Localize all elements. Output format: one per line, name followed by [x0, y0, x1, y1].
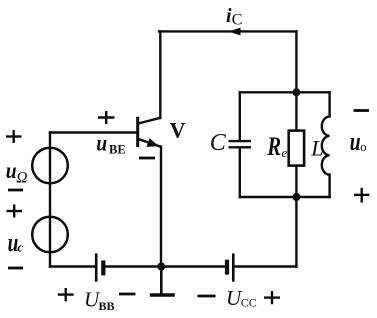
plus sign top-left (u_Omega)	[6, 130, 22, 143]
wire resistor branch upper	[295, 92, 297, 131]
wire resistor branch lower	[295, 165, 297, 197]
svg-text:u: u	[6, 158, 17, 184]
wire left vertical through sources	[49, 133, 51, 267]
svg-text:u: u	[96, 130, 107, 156]
svg-text:R: R	[266, 133, 281, 162]
transistor V: collector diagonal	[138, 118, 161, 124]
wire bottom right segment	[234, 265, 296, 267]
arrow for iC on top wire	[229, 28, 241, 36]
battery U_CC short plate	[225, 260, 229, 275]
junction dot emitter/bottom	[157, 263, 165, 271]
wire capacitor branch upper	[239, 92, 241, 140]
wire tank top	[240, 91, 330, 93]
transistor V: emitter arrowhead	[146, 138, 158, 147]
svg-text:CC: CC	[241, 296, 257, 310]
transistor V: emitter diagonal	[138, 139, 161, 147]
wire inductor branch lower	[328, 175, 330, 198]
wire bottom middle segment	[104, 265, 226, 267]
svg-text:C: C	[232, 11, 243, 28]
resistor Re body	[289, 131, 304, 166]
junction dot tank top	[292, 88, 300, 96]
minus sign below base (u_BE)	[139, 157, 155, 160]
svg-text:L: L	[310, 135, 323, 160]
battery U_CC long plate	[232, 253, 235, 281]
transistor V: base bar	[136, 117, 139, 147]
source u_Omega circle	[32, 148, 68, 184]
svg-text:BB: BB	[99, 299, 115, 313]
wire tank bottom	[240, 196, 330, 198]
wire emitter vertical	[160, 147, 162, 267]
minus sign right (u_o)	[354, 109, 370, 112]
svg-text:e: e	[282, 145, 288, 160]
ground stub	[160, 267, 163, 295]
plus sign right (u_o)	[354, 188, 369, 203]
minus sign after U_BB	[119, 293, 136, 296]
plus sign above u_c	[7, 205, 23, 218]
svg-text:o: o	[360, 140, 366, 154]
minus sign below u_Omega	[8, 189, 23, 192]
minus sign below u_c	[8, 267, 23, 270]
plus sign after U_CC	[264, 291, 280, 304]
battery U_BB short plate	[101, 260, 105, 275]
svg-text:Ω: Ω	[16, 169, 27, 186]
svg-text:C: C	[210, 130, 227, 156]
plus sign bottom left (U_BB)	[58, 288, 74, 301]
source u_c circle	[32, 217, 68, 253]
junction dot tank bottom	[292, 193, 300, 201]
wire inductor branch upper	[328, 92, 330, 116]
wire right vertical (top to tank)	[295, 31, 297, 92]
svg-text:V: V	[170, 117, 186, 142]
svg-text:c: c	[17, 240, 23, 255]
plus sign above u_BE	[98, 111, 115, 124]
wire base horizontal	[50, 131, 138, 133]
wire capacitor branch lower	[239, 149, 241, 198]
svg-text:BE: BE	[109, 143, 126, 157]
inductor L coil	[322, 117, 330, 175]
minus sign before U_CC	[198, 295, 216, 298]
capacitor C plates	[229, 141, 252, 147]
wire right vertical (bottom wire up to tank)	[295, 197, 297, 267]
svg-text:u: u	[350, 128, 361, 156]
ground bar	[150, 293, 175, 297]
wire collector vertical (transistor to top)	[159, 31, 161, 118]
battery U_BB long plate	[95, 253, 98, 281]
wire top horizontal	[159, 30, 296, 32]
wire bottom left segment	[50, 265, 95, 267]
